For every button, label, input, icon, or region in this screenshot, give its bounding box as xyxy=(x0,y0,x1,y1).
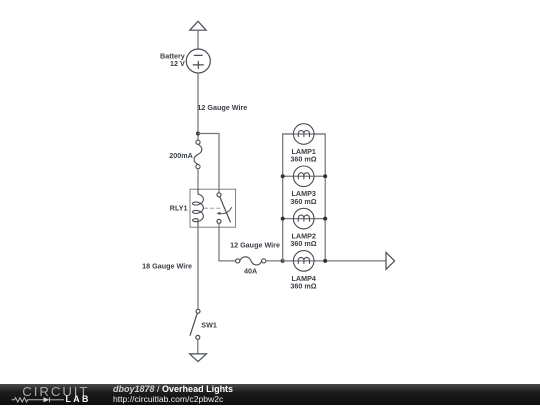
lamp LAMP1 xyxy=(293,124,314,145)
svg-text:12 V: 12 V xyxy=(170,59,185,68)
junction node right bus lamp2 xyxy=(323,217,327,221)
label LAMP4 360 mohm xyxy=(290,274,316,291)
CircuitLab logo xyxy=(0,384,100,405)
wire fuse to relay coil xyxy=(197,169,199,190)
label Battery 12 V xyxy=(160,51,185,67)
relay RLY1 box xyxy=(190,189,236,227)
net flag output (right-pointing triangle) xyxy=(386,252,395,269)
junction node left bus lamp2 xyxy=(281,217,285,221)
wire relay coil to SW1 xyxy=(197,227,199,309)
junction node at battery/relay split xyxy=(196,132,200,136)
wire relay switch to 40A fuse (horizontal) xyxy=(219,260,236,262)
label LAMP1 360 mohm xyxy=(290,147,316,164)
fuse F1 200mA xyxy=(194,140,202,169)
switch SW1 xyxy=(190,309,200,339)
label LAMP2 360 mohm xyxy=(290,232,316,249)
svg-text:200mA: 200mA xyxy=(169,151,193,160)
svg-text:360 mΩ: 360 mΩ xyxy=(290,155,316,164)
label LAMP3 360 mohm xyxy=(290,189,316,206)
wire down to relay switch pin xyxy=(218,134,220,193)
footer text xyxy=(113,384,233,404)
wire lamp row 2 xyxy=(283,175,326,177)
svg-text:360 mΩ: 360 mΩ xyxy=(290,239,316,248)
junction node lamp bus left bottom xyxy=(281,259,285,263)
relay RLY1 actuator arrow xyxy=(217,208,232,216)
fuse F2 40A xyxy=(236,257,266,265)
svg-text:40A: 40A xyxy=(244,266,257,275)
relay RLY1 dashed actuator link xyxy=(205,207,223,209)
lamp LAMP2 xyxy=(293,208,314,229)
lamp LAMP4 xyxy=(293,251,314,272)
svg-text:12 Gauge Wire: 12 Gauge Wire xyxy=(230,240,280,249)
wire lamp row 1 xyxy=(283,133,326,135)
svg-text:12 Gauge Wire: 12 Gauge Wire xyxy=(197,103,247,112)
battery V1 (12 V source circle) xyxy=(186,49,210,73)
junction node right bus lamp3 xyxy=(323,174,327,178)
relay RLY1 switch contact xyxy=(217,193,230,224)
net flag VDD (top, up-pointing triangle) xyxy=(190,21,206,30)
wire lamp row 3 xyxy=(283,218,326,220)
wire battery to junction/fuse xyxy=(197,73,199,140)
wire lamp row 4 / output xyxy=(283,260,386,262)
wire junction to relay switch branch (horizontal) xyxy=(198,133,219,135)
wire SW1 to ground flag xyxy=(197,339,199,354)
svg-text:LAB: LAB xyxy=(66,394,91,404)
junction node right bus lamp4 xyxy=(323,259,327,263)
ground net flag (down-pointing triangle) xyxy=(190,354,207,362)
footer bar xyxy=(0,384,540,405)
wire right lamp bus xyxy=(314,134,325,261)
wire flag to battery xyxy=(197,30,199,49)
junction node left bus lamp3 xyxy=(281,174,285,178)
svg-text:RLY1: RLY1 xyxy=(170,204,188,213)
wire 40A fuse to lamp bus xyxy=(266,260,283,262)
lamp LAMP3 xyxy=(293,166,314,187)
svg-text:360 mΩ: 360 mΩ xyxy=(290,282,316,291)
svg-text:SW1: SW1 xyxy=(201,321,217,330)
svg-text:18 Gauge Wire: 18 Gauge Wire xyxy=(142,261,192,270)
relay RLY1 coil xyxy=(193,189,204,227)
wire relay switch to 40A fuse (vertical) xyxy=(218,223,220,261)
svg-text:360 mΩ: 360 mΩ xyxy=(290,197,316,206)
wire left lamp bus xyxy=(283,134,294,261)
